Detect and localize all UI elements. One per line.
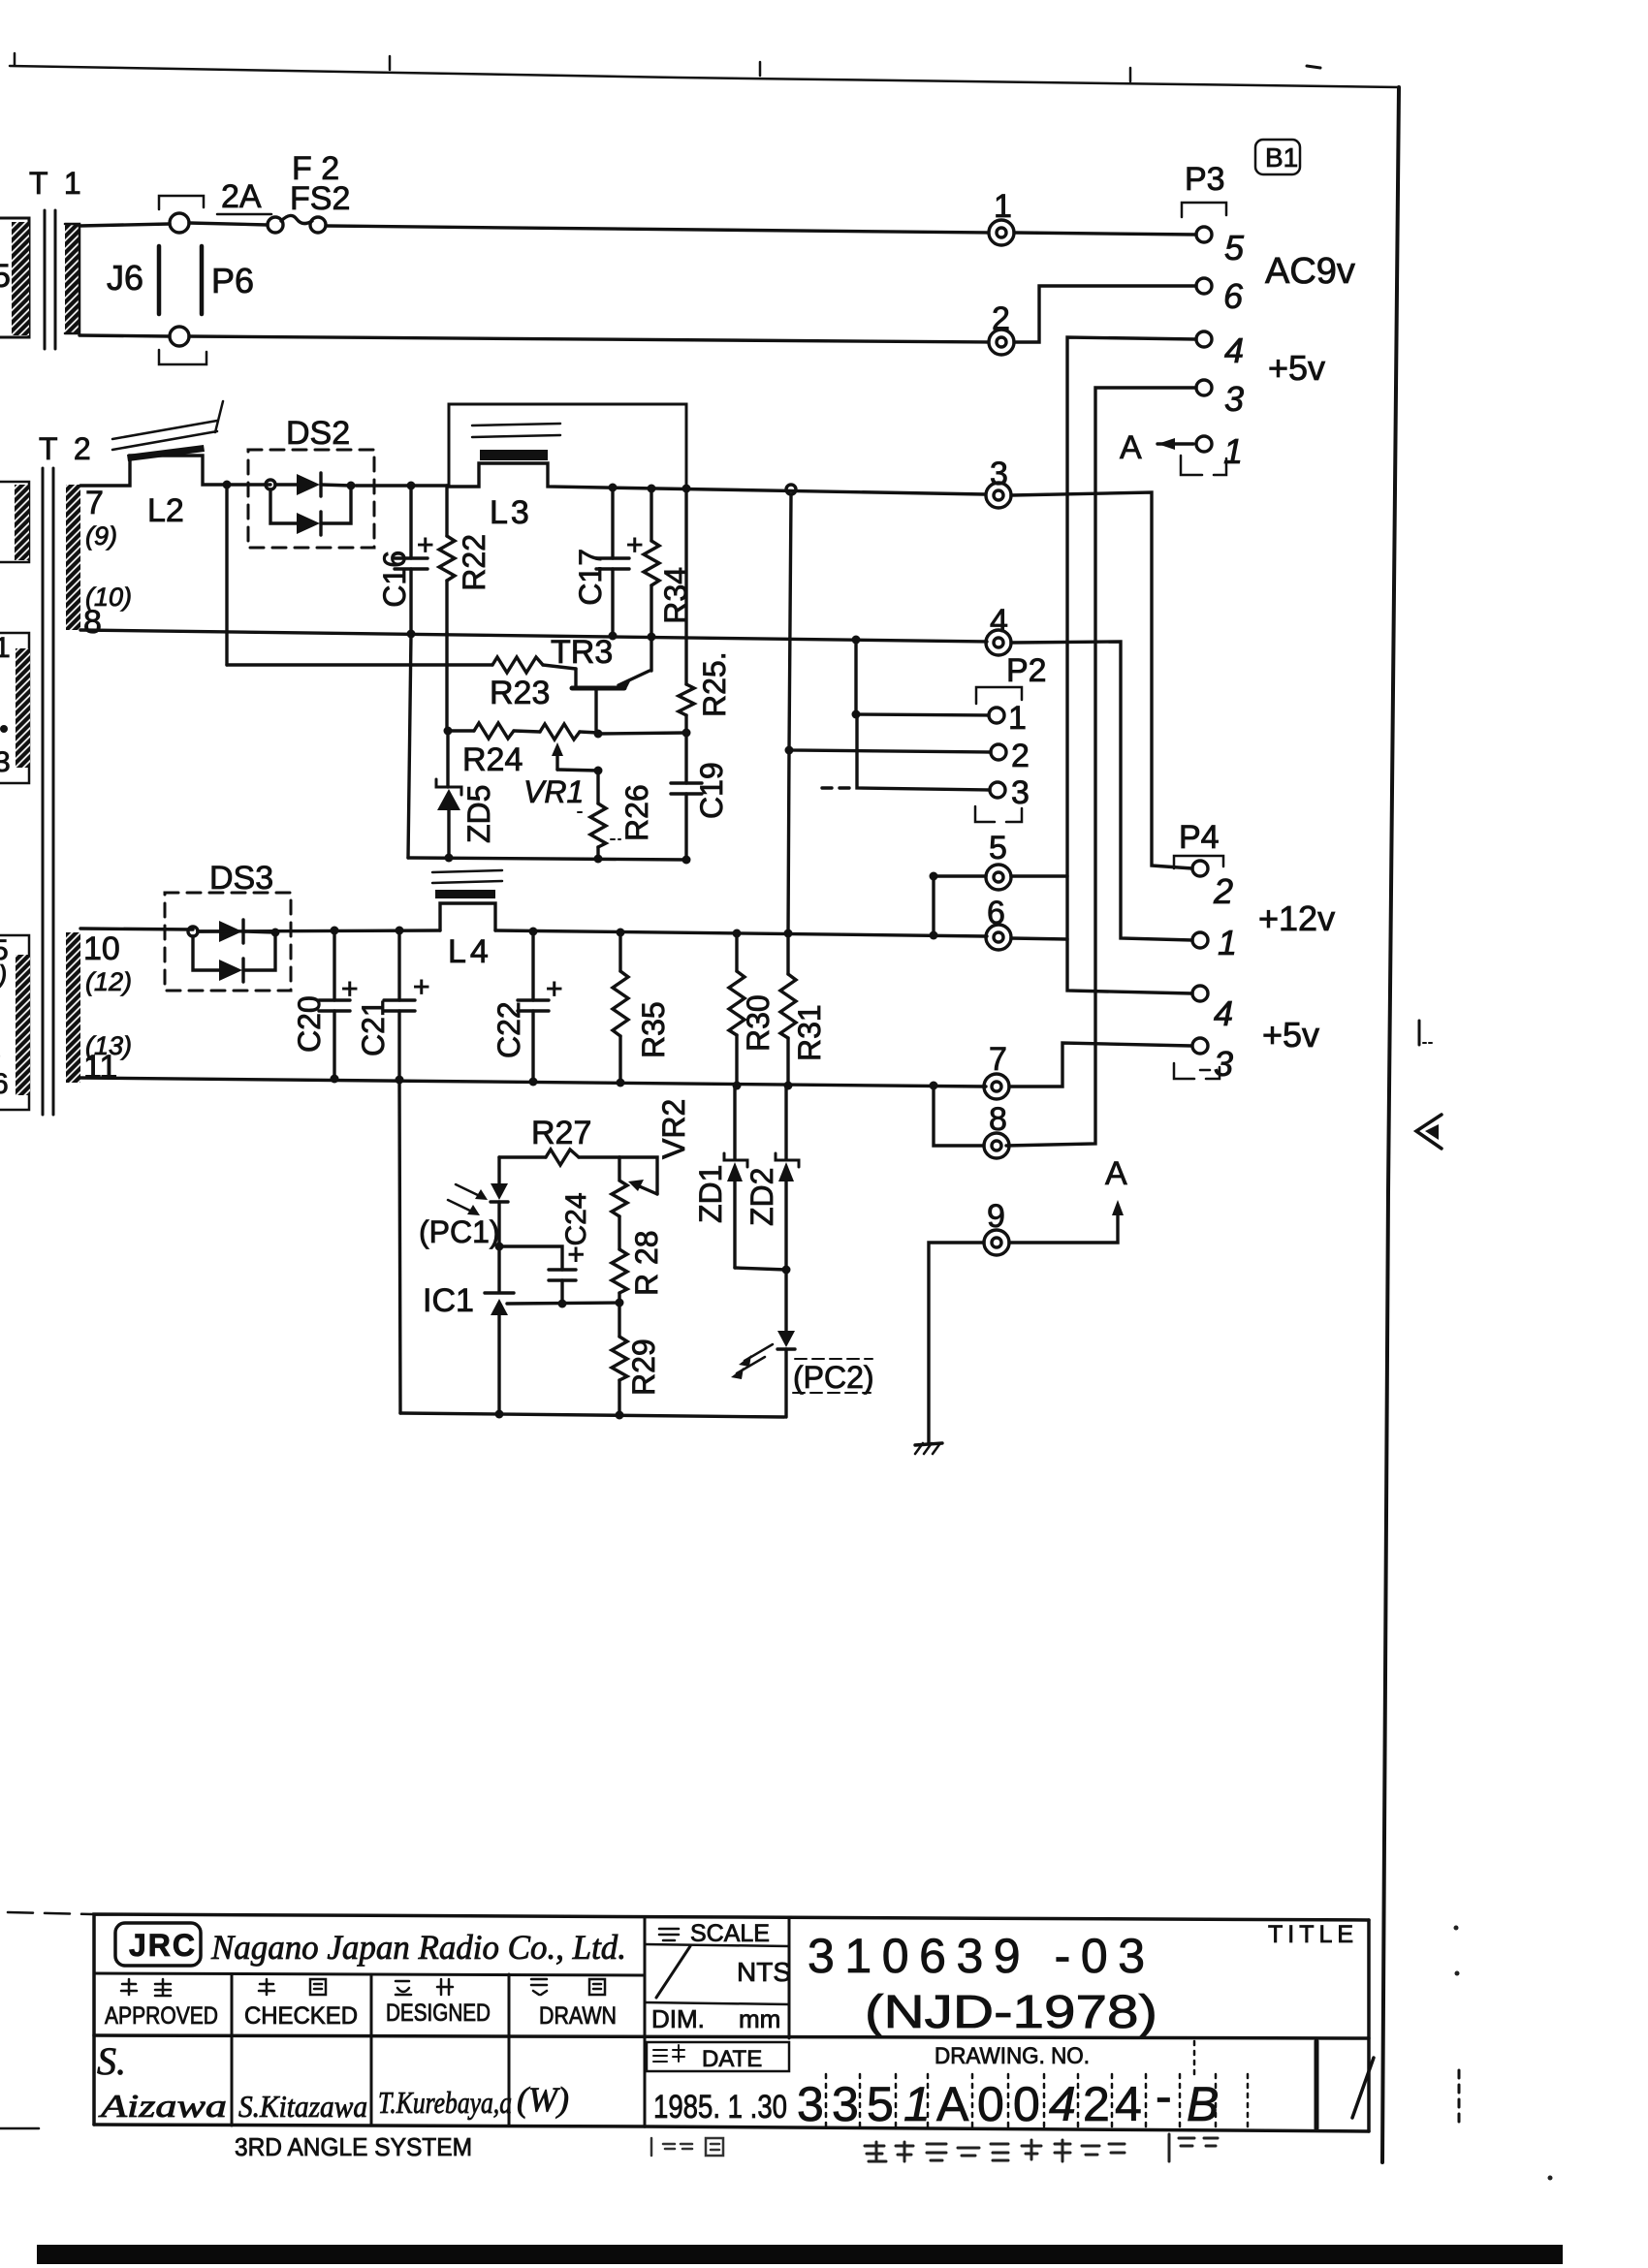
svg-text:TITLE: TITLE (1268, 1921, 1358, 1948)
svg-text:2A: 2A (221, 178, 262, 215)
svg-text:3: 3 (1011, 774, 1030, 811)
P3 pin 6 (1196, 278, 1212, 294)
svg-text:7: 7 (989, 1041, 1007, 1078)
ground (915, 1443, 942, 1454)
svg-text:3: 3 (832, 2077, 859, 2131)
transformer T2 (0, 431, 132, 1115)
margin speck dots (1454, 1926, 1459, 1931)
svg-text:TR3: TR3 (551, 634, 613, 671)
wire node5 left branch (934, 876, 986, 935)
junction R35 bottom (617, 1079, 625, 1087)
svg-text:L3: L3 (490, 494, 532, 531)
svg-text:R26: R26 (619, 784, 654, 841)
resistor R31 (780, 933, 827, 1086)
svg-text:C22: C22 (491, 1001, 526, 1058)
svg-text:+5v: +5v (1262, 1015, 1319, 1055)
svg-text:3: 3 (990, 456, 1008, 492)
connector P2 (975, 652, 1047, 822)
svg-text:(NJD-1978): (NJD-1978) (865, 1987, 1157, 2038)
svg-text:+C24: +C24 (560, 1192, 592, 1263)
svg-text:11: 11 (83, 1049, 117, 1086)
svg-text:2: 2 (1083, 2077, 1110, 2131)
wire R24/VR1 row (448, 729, 474, 732)
wire fuse to node 1 (326, 226, 988, 233)
svg-text:B1: B1 (1265, 142, 1298, 173)
svg-text:2: 2 (1011, 738, 1030, 774)
svg-text:ZD1: ZD1 (693, 1165, 728, 1223)
junction P2 pin1 branch on 8-rail (852, 636, 861, 645)
svg-text:SCALE: SCALE (690, 1920, 770, 1947)
svg-text:P4: P4 (1179, 819, 1220, 856)
junction R34 lead crossing (648, 633, 656, 642)
junction at L2 out (223, 481, 232, 489)
fuse F2 FS2 2A (217, 150, 350, 233)
P4 pin 1 (1192, 932, 1208, 948)
svg-text:3: 3 (0, 746, 11, 778)
P3 pin 5 (1196, 227, 1212, 242)
svg-text:DRAWN: DRAWN (539, 2002, 617, 2030)
capacitor C24 (499, 1192, 592, 1304)
junction R31 top (784, 929, 793, 938)
svg-text:C19: C19 (694, 762, 729, 819)
svg-text:(PC1): (PC1) (419, 1214, 500, 1249)
svg-text:3: 3 (1224, 379, 1244, 419)
svg-text:APPROVED: APPROVED (105, 2002, 218, 2030)
connector P4 (1174, 819, 1237, 1084)
svg-text:5: 5 (0, 258, 11, 295)
svg-text:+12v: +12v (1258, 898, 1335, 938)
wire IC1 ref row (507, 1303, 619, 1304)
open junction node3 rail to P2-2 branch (786, 485, 796, 494)
P4 pin 3 (1192, 1038, 1208, 1054)
capacitor C22 (491, 931, 563, 1082)
mark right margin I (1419, 1021, 1435, 1045)
wire node7 to P4 pin 3 (1009, 1043, 1191, 1087)
svg-text:A: A (1105, 1155, 1127, 1192)
junction R35 top (617, 929, 625, 937)
LED PC2 (731, 1270, 874, 1417)
wire T1 top to J6 (79, 224, 170, 226)
kanji drawn (531, 1979, 605, 1995)
wire node 2 to P3 pin 6 (1014, 286, 1196, 342)
P3 pin 3 (1196, 380, 1212, 395)
svg-text:1: 1 (0, 632, 11, 664)
node 6 (986, 895, 1011, 950)
scale cell (645, 1920, 791, 2033)
wire 7-rail left (80, 456, 246, 486)
svg-text:T 2: T 2 (39, 431, 95, 466)
wire node 4 to P4 pin 1 (1011, 642, 1192, 940)
svg-text:VR1: VR1 (523, 774, 584, 809)
junction C16 top (407, 482, 416, 490)
wire VR1 row to R25 (598, 733, 686, 734)
T2 primary partial box a (0, 482, 29, 562)
resistor R28 (612, 1216, 664, 1303)
company kanji smudge (865, 2140, 1125, 2161)
svg-text:NTS: NTS (737, 1957, 791, 1987)
kanji designed (396, 1979, 453, 1995)
wire down from L2 node to R23 row (225, 485, 228, 665)
connector J6/P6 (107, 196, 254, 364)
svg-text:L2: L2 (147, 492, 184, 529)
P4 pin 4 (1192, 986, 1208, 1001)
svg-text:S.: S. (97, 2039, 126, 2083)
P2 pin 3 (990, 782, 1005, 798)
svg-text:JRC: JRC (129, 1928, 197, 1963)
label B1 (1255, 140, 1300, 174)
svg-text:(9): (9) (85, 521, 117, 551)
logo JRC (115, 1923, 201, 1966)
svg-text:+: + (626, 529, 644, 561)
P3 pin 4 (1196, 331, 1212, 347)
junction node5 wire to long vertical (930, 872, 938, 881)
T2 primary partial box c (0, 935, 29, 1110)
svg-text:-: - (1156, 2069, 1172, 2124)
junction R28/R29 node (616, 1299, 624, 1307)
svg-text:4: 4 (1115, 2077, 1142, 2131)
svg-text:C17: C17 (573, 549, 608, 606)
node 8 (984, 1101, 1009, 1158)
wire regulator bottom rail (408, 858, 687, 860)
svg-text:+: + (417, 529, 434, 561)
svg-text:(W): (W) (517, 2080, 569, 2119)
node 9 (984, 1198, 1009, 1255)
svg-text:310639 -03: 310639 -03 (808, 1929, 1145, 1983)
svg-text:DATE: DATE (702, 2046, 762, 2072)
wire P2 pin 3 stub (822, 714, 990, 790)
capacitor C19 (671, 733, 729, 860)
transistor TR3 (551, 634, 650, 733)
svg-text:ZD2: ZD2 (745, 1168, 779, 1226)
svg-text:P3: P3 (1185, 161, 1225, 198)
junction C17 top (609, 484, 618, 492)
svg-text:): ) (0, 960, 7, 990)
svg-text:DS2: DS2 (286, 415, 350, 452)
wire J6 to fuse (189, 223, 268, 225)
wire DS2 area rail (248, 483, 270, 486)
capacitor C16 (377, 486, 434, 633)
shunt regulator IC1 (423, 1246, 514, 1414)
junction C22 bottom (529, 1078, 538, 1087)
junction R26 bottom (594, 855, 603, 864)
svg-text:3RD ANGLE SYSTEM: 3RD ANGLE SYSTEM (235, 2132, 472, 2161)
wire 11-rail (80, 1078, 986, 1087)
wire 10-rail L4 bump (440, 903, 495, 930)
svg-text:T 1: T 1 (29, 166, 85, 201)
resistor R23 (490, 657, 576, 711)
junction C21 top (396, 927, 404, 935)
junction R31 bottom (784, 1082, 793, 1090)
junction P2-1 wire (852, 710, 861, 719)
junction R30 bottom (733, 1082, 742, 1090)
junction C21 bottom (396, 1076, 404, 1085)
wire ZD1 to ZD2 column (735, 1268, 786, 1270)
node 7 (984, 1041, 1009, 1099)
wire R27 to VR2 column (579, 1155, 619, 1158)
zener ZD1 (693, 1086, 747, 1268)
svg-text:S.Kitazawa: S.Kitazawa (238, 2089, 367, 2124)
node 5 (986, 830, 1011, 890)
SHEET-FRAME (10, 53, 1399, 2162)
svg-text:J6: J6 (107, 258, 143, 298)
inductor L4 (432, 870, 502, 970)
junction C20 top (331, 927, 339, 935)
wire sub-block left vertical (399, 1080, 400, 1413)
P2 pin 1 (989, 708, 1004, 723)
resistor R26 (578, 771, 654, 859)
node 1 (989, 188, 1014, 245)
svg-text:C16: C16 (377, 551, 412, 608)
node A arrow (1105, 1155, 1127, 1215)
wire node7-node8 left tie (934, 1086, 984, 1146)
junction VR1 out (594, 730, 603, 739)
resistor R25 (679, 488, 732, 733)
zener ZD2 (745, 1086, 799, 1270)
svg-text:DESIGNED: DESIGNED (386, 2000, 491, 2027)
wire node 9 to A arrow (1009, 1210, 1118, 1243)
svg-text:R 28: R 28 (629, 1230, 664, 1296)
svg-text:ZD5: ZD5 (461, 785, 496, 843)
capacitor C20 (292, 930, 359, 1079)
wire R23 row (227, 663, 492, 666)
svg-text:5: 5 (989, 830, 1007, 866)
node 4 (986, 603, 1011, 655)
drawing number boxes 3351A00424-B (797, 2041, 1374, 2131)
svg-text:DS3: DS3 (209, 860, 273, 897)
resistor R30 (729, 933, 776, 1086)
svg-text:R27: R27 (531, 1115, 591, 1151)
svg-text:(12): (12) (85, 967, 132, 996)
svg-text:R31: R31 (792, 1004, 827, 1061)
svg-text:1: 1 (1218, 923, 1237, 962)
svg-text:A: A (936, 2077, 969, 2131)
svg-text:4: 4 (1049, 2077, 1076, 2131)
junction R24 left (444, 727, 453, 736)
svg-text:6: 6 (1223, 276, 1244, 316)
potentiometer VR1 (523, 724, 598, 809)
wire sub-block bottom rail (400, 1413, 784, 1417)
svg-text:L4: L4 (448, 933, 492, 970)
svg-text:R30: R30 (741, 994, 776, 1052)
LED PC1 (419, 1157, 508, 1249)
junction P2-2 wire (785, 746, 794, 755)
svg-text:T.Kurebaya,a: T.Kurebaya,a (378, 2085, 512, 2120)
svg-text:1: 1 (1008, 700, 1027, 737)
kanji approved (121, 1979, 171, 1996)
svg-text:5: 5 (1224, 228, 1245, 268)
kanji checked (259, 1979, 326, 1995)
junction R30 top (733, 929, 742, 938)
wire sub-block top row (499, 1155, 546, 1158)
junction R25 bottom (682, 729, 691, 738)
wire 8-rail (80, 630, 987, 642)
svg-text:1985. 1 .30: 1985. 1 .30 (653, 2089, 787, 2126)
resistor R27 (531, 1115, 591, 1165)
wire P6 to node 2 (189, 336, 988, 342)
mark right margin arrow (1416, 1115, 1442, 1149)
svg-text:R24: R24 (462, 741, 523, 778)
svg-text:CHECKED: CHECKED (244, 2002, 358, 2030)
svg-text:R25.: R25. (697, 651, 732, 717)
svg-text:0: 0 (977, 2077, 1004, 2131)
junction R25 top (682, 485, 691, 493)
svg-text:7: 7 (85, 485, 104, 521)
wire 7-rail under L3 with bump (449, 463, 985, 494)
svg-text:B: B (1187, 2077, 1219, 2131)
resistor R29 (612, 1303, 661, 1415)
wire P3 pin 4 down long vertical (1067, 337, 1196, 993)
capacitor C21 (356, 930, 430, 1080)
junction VR1 wiper tap (594, 767, 603, 775)
svg-text:C21: C21 (356, 999, 391, 1056)
svg-text:1: 1 (903, 2077, 931, 2131)
svg-text:4: 4 (1224, 331, 1244, 370)
svg-text:R22: R22 (457, 534, 491, 591)
rectifier DS2 (248, 415, 374, 548)
bottom heavy bar (37, 2245, 1563, 2264)
svg-text:+: + (413, 971, 430, 1003)
svg-text:+: + (546, 973, 563, 1005)
capacitor C17 (573, 488, 644, 635)
svg-text:10: 10 (83, 930, 120, 967)
note 1mm scale (651, 2138, 723, 2156)
wire T1 bottom to P6 (79, 335, 170, 336)
junction C24 bottom (558, 1300, 567, 1308)
svg-text:P2: P2 (1006, 652, 1047, 689)
date cell (647, 2042, 789, 2126)
svg-text:4: 4 (990, 603, 1008, 640)
zener ZD5 (436, 633, 496, 858)
inductor L3 (449, 404, 686, 531)
svg-text:DIM.: DIM. (651, 2004, 705, 2033)
svg-text:2: 2 (1213, 871, 1233, 911)
T2 secondary winding 7-8 (66, 485, 80, 630)
P2 pin 2 (991, 744, 1006, 760)
junction R29 bottom (616, 1411, 624, 1420)
junction R34 top (648, 485, 656, 493)
inductor L2 (112, 401, 223, 529)
wire node 3 to P4 pin 2 (1011, 492, 1192, 868)
junction C22 top (529, 928, 538, 936)
svg-text:AC9v: AC9v (1265, 251, 1355, 292)
resistor R22 (439, 486, 491, 633)
connector P3 (1120, 161, 1245, 475)
T2 primary partial box b (0, 633, 29, 783)
svg-text:0: 0 (1013, 2077, 1040, 2131)
junction ZD5 bottom (445, 854, 454, 863)
wire node3 branch down to P2 pin 2 (789, 494, 991, 752)
rectifier DS3 (165, 860, 291, 991)
svg-text:VR2: VR2 (656, 1099, 691, 1159)
wire node5 right to vertical (1011, 874, 1067, 877)
resistor R24 (462, 723, 540, 778)
junction node5 branch on 10-rail (930, 931, 938, 940)
svg-text:Nagano Japan Radio Co., Ltd.: Nagano Japan Radio Co., Ltd. (210, 1928, 626, 1967)
signature S. Aizawa (97, 2039, 227, 2125)
resistor R35 (613, 932, 671, 1083)
margin smudge marks (1169, 2134, 1218, 2161)
svg-text:FS2: FS2 (290, 180, 350, 217)
junction C19 bottom (682, 856, 691, 865)
wire 8-rail branch to P2 pin 1 (856, 640, 989, 715)
resistor R34 (644, 488, 693, 671)
svg-text:mm: mm (739, 2004, 780, 2033)
wire P3 pin 3 down long vertical (1006, 388, 1196, 1146)
wire P2-2 node down to 10-rail (788, 750, 789, 933)
junction C16 bottom (407, 630, 416, 639)
svg-text:+5v: +5v (1268, 348, 1325, 388)
wire node6 right to vertical (1011, 938, 1067, 939)
svg-text:R29: R29 (626, 1339, 661, 1396)
wire 10-rail right (495, 930, 987, 936)
junction node7 branch (930, 1082, 938, 1090)
svg-text:(PC2): (PC2) (793, 1360, 874, 1395)
node 3 (986, 456, 1011, 508)
svg-text:8: 8 (83, 604, 102, 641)
svg-text:C20: C20 (292, 995, 327, 1053)
svg-text:3: 3 (797, 2077, 824, 2131)
T2 secondary winding 10-11 (66, 932, 80, 1083)
svg-text:4: 4 (1214, 993, 1233, 1033)
svg-text:Aizawa: Aizawa (98, 2089, 227, 2125)
junction ZD2/PC2 node (782, 1266, 791, 1275)
svg-text:IC1: IC1 (423, 1282, 474, 1319)
svg-text:5: 5 (867, 2077, 894, 2131)
svg-text:DRAWING. NO.: DRAWING. NO. (935, 2043, 1090, 2069)
junction PC1 cathode / C24 (495, 1243, 504, 1251)
svg-text:P6: P6 (211, 261, 254, 300)
wire C16 column lower (408, 634, 411, 858)
svg-text:A: A (1120, 429, 1142, 466)
svg-text:R35: R35 (636, 1001, 671, 1058)
transformer T1 (0, 166, 85, 349)
junction C20 bottom (331, 1075, 339, 1084)
wire node 1 to P3 pin 5 (1014, 233, 1196, 235)
node 2 (989, 300, 1014, 355)
svg-text:6: 6 (0, 1068, 9, 1100)
svg-text:R23: R23 (490, 675, 550, 711)
junction IC1 bottom (495, 1410, 504, 1419)
wire node 9 to ground (929, 1243, 984, 1443)
TITLE BLOCK (0, 1912, 1369, 2131)
margin dashed strip (1458, 2070, 1461, 2127)
wire 10-rail left (80, 929, 193, 929)
junction C17 bottom (609, 632, 618, 641)
potentiometer VR2 (612, 1099, 691, 1216)
P4 pin 2 (1192, 861, 1208, 876)
